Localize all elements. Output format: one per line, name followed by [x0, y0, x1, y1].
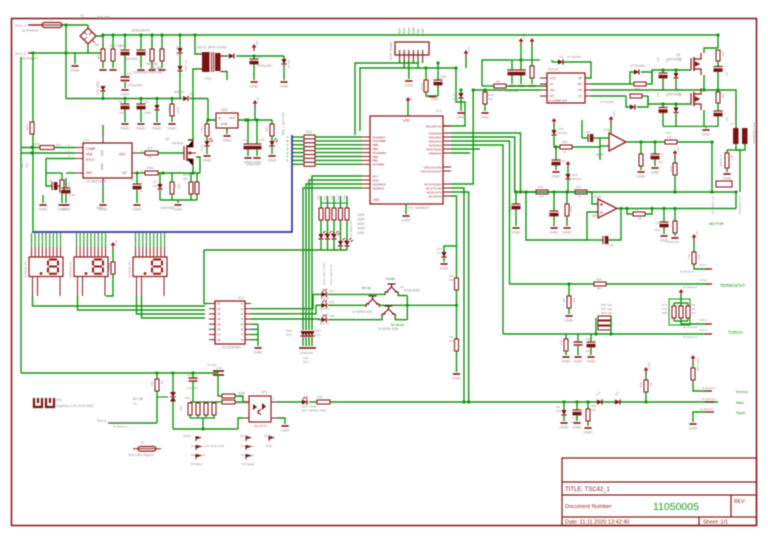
wire Q7 drain: [703, 88, 705, 90]
wire bridge to AC: [87, 44, 89, 53]
resistor 360R bank: [196, 403, 200, 415]
resistor R6: [60, 180, 64, 192]
wire SV1-3 drop: [32, 53, 34, 232]
capacitor C29: [552, 160, 561, 165]
svg-text:COMP: COMP: [86, 147, 96, 151]
wire to IC5 input: [208, 99, 216, 121]
wire: [277, 401, 302, 403]
capacitor C6: [137, 104, 146, 109]
wire siyah gnd: [693, 412, 705, 422]
inductor L2: [733, 128, 739, 144]
wire drain: [188, 139, 193, 141]
diode D17: [303, 331, 308, 336]
wire: [456, 351, 458, 372]
svg-text:47ER: 47ER: [146, 166, 154, 170]
svg-text:BAS32: BAS32: [174, 90, 185, 94]
svg-text:SV3-1: SV3-1: [699, 263, 708, 267]
svg-text:O8: O8: [217, 338, 221, 342]
resistor R50: [560, 145, 572, 149]
wire: [309, 401, 317, 403]
svg-text:S3 BOW-4050: S3 BOW-4050: [378, 327, 399, 331]
wire mode in: [328, 293, 385, 294]
svg-text:R55: R55: [317, 395, 323, 399]
wire R15 to IC2: [315, 163, 362, 165]
pin stub IC4 in2: [209, 308, 215, 310]
ground: [121, 90, 130, 97]
junction j9: [716, 33, 719, 36]
wire: [673, 318, 675, 321]
svg-text:4k7: 4k7: [562, 298, 566, 303]
wire R15 to IC2: [315, 159, 362, 161]
ground: [58, 205, 67, 212]
svg-text:R27: R27: [730, 155, 734, 161]
wire: [482, 60, 509, 86]
LED LED2: [269, 138, 278, 146]
ground: [702, 130, 711, 137]
transistor Q7 IRF540: [691, 88, 701, 110]
flag net marker: [246, 436, 252, 441]
svg-text:R35: R35: [669, 166, 673, 172]
wire: [674, 175, 676, 192]
wire digit1 common: [33, 296, 206, 306]
wire: [65, 193, 67, 203]
wire bootstrap: [564, 62, 592, 78]
svg-text:C36: C36: [608, 243, 614, 247]
svg-text:D26: D26: [329, 300, 335, 304]
svg-text:GND: GND: [457, 115, 466, 120]
svg-text:C30: C30: [585, 337, 591, 341]
svg-text:GND: GND: [689, 426, 698, 431]
svg-text:5mm LED Y DSL: 5mm LED Y DSL: [322, 262, 326, 285]
svg-text:C7: C7: [257, 56, 261, 60]
svg-text:R55 10k: R55 10k: [601, 311, 613, 315]
wire: [552, 61, 558, 63]
svg-text:BAS32: BAS32: [558, 131, 568, 135]
wire: [320, 220, 322, 234]
svg-text:O7: O7: [217, 333, 221, 337]
svg-text:O6: O6: [217, 328, 221, 332]
wire IC1 vcc up: [102, 125, 104, 136]
svg-text:22n/400: 22n/400: [126, 57, 138, 61]
optocoupler OP2 MOC3021: [249, 396, 271, 422]
wire IC6A out: [617, 208, 736, 210]
wire: [443, 258, 445, 262]
svg-text:R59: R59: [639, 382, 643, 388]
wire led feed: [327, 196, 329, 208]
svg-text:BZX-C2: BZX-C2: [320, 321, 330, 325]
wire: [663, 209, 665, 223]
svg-text:10k: 10k: [591, 408, 596, 412]
svg-text:GND: GND: [174, 207, 183, 212]
resistor R49: [483, 92, 487, 104]
wire HO: [591, 83, 630, 85]
svg-text:R62: R62: [150, 381, 154, 387]
capacitor C36: [603, 236, 608, 244]
pin SV3-3 siyah: [705, 411, 714, 413]
connector ICSP header SV2: [395, 42, 429, 55]
junction: [64, 23, 67, 26]
resistor R59: [644, 380, 648, 392]
LED LED1: [204, 138, 213, 146]
svg-text:IC1: IC1: [84, 138, 89, 142]
wire: [161, 61, 163, 68]
ground: [153, 124, 162, 131]
svg-text:dPCO_BPM 4/100u: dPCO_BPM 4/100u: [197, 46, 227, 50]
svg-text:GND: GND: [402, 218, 411, 223]
svg-text:GNDGNDGNDGND: GNDGNDGNDGND: [133, 71, 163, 75]
wire IC8A out: [626, 141, 665, 143]
capacitor C16: [550, 211, 559, 216]
svg-text:TORCH: TORCH: [728, 330, 743, 335]
wire SD_ line: [473, 89, 540, 91]
wire: [567, 168, 569, 174]
supply +5V arrow deko: [111, 242, 116, 249]
svg-text:R21: R21: [265, 127, 269, 133]
ground: [404, 81, 413, 88]
supply arrow D15: [552, 118, 557, 125]
wire: [662, 113, 664, 127]
svg-text:GND: GND: [562, 359, 571, 364]
wire: [674, 233, 676, 236]
wire: [641, 72, 652, 84]
pin stub IC4 in4: [209, 318, 215, 320]
wire digit drive: [306, 184, 362, 330]
wire: [161, 35, 163, 49]
capacitor C25: [434, 80, 443, 85]
wire: [654, 142, 656, 154]
svg-text:GND: GND: [121, 92, 130, 97]
wire low rail: [663, 125, 718, 127]
pin stub SV1-3: [28, 52, 33, 54]
svg-text:GND: GND: [560, 425, 569, 430]
flag net marker: [246, 445, 252, 450]
wire phase to L2: [700, 90, 736, 128]
wire: [553, 125, 555, 130]
wire vdd: [407, 104, 409, 116]
wire: [693, 241, 695, 252]
7-segment display LED3: [133, 257, 167, 277]
ground: [528, 85, 535, 87]
junction: [123, 97, 126, 100]
wire button common: [406, 296, 408, 320]
svg-text:C23: C23: [721, 111, 725, 117]
microcontroller IC2 PIC16F883: [370, 116, 443, 204]
ground: [402, 216, 411, 223]
svg-text:10k: 10k: [637, 217, 642, 221]
bus stub G: [292, 159, 304, 161]
wire: [674, 302, 688, 304]
junction j1: [101, 33, 104, 36]
wire: [45, 159, 47, 167]
wire: [680, 296, 682, 303]
transistor Q6 IRF540: [691, 53, 701, 75]
svg-text:360R 2W: 360R 2W: [196, 416, 208, 420]
wire: [646, 83, 652, 85]
zener D3: [281, 59, 286, 64]
wire: [283, 65, 285, 80]
svg-text:C20: C20: [656, 57, 660, 62]
display pin top 6: [49, 233, 51, 247]
wire: [205, 402, 207, 403]
pin stub RC5: [362, 183, 370, 185]
svg-text:SV1: SV1: [303, 360, 309, 364]
pin stub RB6: [362, 140, 370, 142]
diode D14 BAS32: [597, 399, 602, 404]
svg-text:4p Molecon: 4p Molecon: [700, 407, 714, 411]
wire drain bus: [717, 35, 719, 48]
zener D21: [458, 93, 463, 98]
wire telup in: [328, 304, 366, 306]
svg-text:OUT: OUT: [119, 153, 126, 157]
wire fb r37: [627, 209, 633, 215]
svg-text:SV3-3: SV3-3: [699, 318, 708, 322]
svg-text:GND: GND: [100, 163, 104, 171]
wire teldown in: [328, 316, 382, 320]
7-segment display LED1: [29, 257, 63, 277]
svg-text:SV3-4: SV3-4: [699, 328, 708, 332]
wire to +5V: [254, 107, 256, 120]
display pin top 8: [160, 233, 162, 247]
svg-text:GND: GND: [573, 425, 582, 430]
display pin top 3: [83, 233, 85, 247]
transformer TR1: [199, 52, 225, 72]
svg-text:D28: D28: [329, 314, 335, 318]
svg-text:100n: 100n: [69, 193, 76, 197]
wire: [645, 209, 652, 215]
svg-text:VFB: VFB: [86, 153, 92, 157]
pin stubs IC1: [75, 136, 140, 185]
svg-text:6p Molecon: 6p Molecon: [22, 29, 39, 33]
wire: [563, 402, 565, 410]
capacitor C21: [660, 222, 669, 227]
svg-text:SV1: SV1: [556, 409, 562, 413]
wire: [253, 64, 255, 80]
bus stub F: [292, 156, 304, 158]
svg-text:R58: R58: [596, 278, 602, 282]
display pin top 9: [60, 233, 62, 247]
display pin bottom: [37, 277, 39, 297]
svg-text:GND: GND: [431, 97, 439, 101]
resistor R4: [145, 151, 158, 155]
svg-text:4n7: 4n7: [571, 420, 576, 424]
wire: [576, 402, 578, 410]
left rail wire: [20, 57, 22, 373]
svg-text:SV1-6: SV1-6: [97, 419, 107, 423]
wire: [456, 290, 458, 305]
display pin top 9: [105, 233, 107, 247]
svg-text:R13: R13: [200, 127, 204, 133]
wire: [61, 173, 63, 180]
ground: [723, 174, 732, 181]
wire torch sense: [451, 145, 503, 334]
svg-text:OP2: OP2: [261, 391, 268, 395]
svg-text:TITLE: TSC42_1: TITLE: TSC42_1: [565, 487, 611, 493]
resistor R15 element 3: [304, 143, 315, 147]
wire cs: [140, 172, 145, 174]
resistor R14b: [494, 84, 506, 88]
display pin top 7: [156, 233, 158, 247]
svg-text:GND: GND: [71, 68, 80, 73]
wire key row: [451, 196, 457, 246]
capacitor C28b 4n7: [659, 108, 668, 113]
svg-text:HO: HO: [578, 82, 583, 86]
wire: [197, 402, 199, 403]
svg-text:100n: 100n: [585, 349, 592, 353]
pin stubs IR2104: [540, 78, 591, 96]
wire: [46, 172, 62, 174]
wire to snubber rail: [179, 72, 181, 99]
wire: [677, 141, 712, 143]
svg-text:GND: GND: [552, 174, 561, 179]
wire: [630, 83, 634, 85]
svg-text:GND: GND: [481, 115, 490, 120]
supply +5V arrow: [464, 50, 469, 57]
fuse F2: [138, 447, 156, 452]
svg-text:STA 160U: STA 160U: [96, 80, 100, 95]
wire D17 branch: [444, 246, 457, 252]
svg-text:Tra Kapag: Tra Kapag: [241, 462, 254, 466]
wire L2 join: [736, 144, 745, 150]
svg-text:mclr: mclr: [421, 28, 425, 34]
resistor R11: [30, 122, 34, 134]
ground: [574, 357, 583, 364]
zener D8 SV1: [561, 410, 566, 415]
bus stub E: [292, 152, 304, 154]
resistor R13: [205, 124, 209, 136]
svg-text:IC4: IC4: [238, 296, 243, 300]
wire +5 to rail: [465, 57, 467, 68]
wire: [662, 78, 664, 89]
wire: [717, 90, 719, 92]
resistor R48: [150, 49, 154, 61]
wire: [520, 75, 522, 84]
wire main low-voltage line: [331, 401, 718, 403]
svg-text:330R: 330R: [357, 222, 365, 226]
display pin bottom: [32, 277, 34, 297]
svg-text:STTA108U: STTA108U: [630, 64, 646, 68]
resistor R23 22E: [716, 50, 720, 61]
resistor R58: [594, 282, 606, 286]
svg-text:330R: 330R: [357, 213, 365, 217]
display pin bottom: [136, 277, 138, 297]
pin stub IC4 out1: [245, 303, 251, 305]
pin stub IC4 out4: [245, 318, 251, 320]
svg-text:1k6: 1k6: [25, 163, 29, 168]
display pin bottom: [59, 277, 61, 297]
bus stub B: [292, 140, 304, 142]
resistor R28: [530, 66, 534, 78]
capacitor C23: [714, 111, 723, 116]
wire: [609, 208, 621, 240]
junction j2: [111, 33, 114, 36]
resistor R27 shunt: [725, 153, 729, 168]
wire: [484, 90, 486, 92]
LED 5mm: [318, 231, 327, 239]
resistor R14 DEKO: [111, 262, 115, 274]
svg-text:GND: GND: [133, 207, 142, 212]
svg-text:R47: R47: [572, 298, 576, 304]
wire digit drive: [309, 180, 362, 330]
svg-text:5V0: 5V0: [398, 28, 402, 34]
svg-text:TR1: TR1: [204, 76, 212, 81]
wire: [515, 209, 517, 226]
wire: [484, 104, 486, 111]
wire: [253, 56, 255, 59]
wire: [171, 116, 173, 122]
svg-text:C8: C8: [118, 100, 122, 104]
pin stub RB2: [362, 156, 370, 158]
wire: [124, 35, 126, 49]
svg-text:C1: C1: [131, 178, 135, 182]
svg-text:D3 9V: D3 9V: [287, 60, 291, 68]
wire led rail top: [321, 202, 347, 204]
wire digit2 common: [78, 296, 206, 310]
wire: [159, 190, 161, 200]
svg-text:GND: GND: [587, 359, 596, 364]
wire: [172, 402, 174, 430]
svg-text:R4: R4: [148, 155, 152, 159]
svg-text:O4: O4: [217, 317, 221, 321]
pin stub RB7: [362, 136, 370, 138]
svg-text:100n: 100n: [654, 228, 661, 232]
wire: [531, 60, 533, 66]
display pin top 2: [138, 233, 140, 247]
resistor 360R bank: [212, 403, 216, 415]
wire gate: [157, 396, 168, 398]
pin SV3-4: [705, 333, 712, 335]
wire: [680, 318, 682, 321]
svg-text:C18: C18: [506, 68, 510, 74]
junction: [64, 51, 67, 54]
wire 15V rail: [509, 59, 540, 61]
ground: [660, 236, 669, 243]
wire: [693, 380, 705, 391]
resistor R15 element 8: [304, 162, 315, 166]
display pin top 8: [56, 233, 58, 247]
svg-text:PGD: PGD: [407, 27, 411, 34]
wire: [151, 35, 153, 49]
svg-text:P!C 16F882/3: P!C 16F882/3: [408, 206, 429, 210]
svg-text:GND: GND: [565, 318, 574, 323]
svg-text:GNDGND: GNDGND: [666, 240, 680, 244]
wire VS phase: [591, 89, 700, 91]
svg-text:SDW5: SDW5: [240, 434, 249, 438]
svg-text:KBU8G: KBU8G: [97, 15, 111, 20]
svg-text:R31: R31: [576, 185, 582, 189]
diode D18 STTA: [630, 104, 635, 109]
svg-text:C22: C22: [721, 66, 725, 72]
wire: [308, 337, 310, 346]
svg-text:C9: C9: [120, 44, 124, 48]
wire: [456, 246, 458, 278]
wire: [208, 119, 216, 121]
resistor R32: [332, 208, 336, 220]
wire: [581, 120, 583, 138]
wire digit drive: [312, 176, 362, 330]
wire: [197, 415, 199, 418]
svg-text:C26: C26: [509, 206, 513, 212]
wire: [640, 142, 642, 154]
wire teldown out: [395, 316, 407, 320]
svg-text:R38: R38: [449, 278, 455, 282]
wire: [572, 138, 600, 147]
bus segment display: [32, 135, 292, 232]
wire: [302, 337, 304, 346]
wire telup out: [379, 304, 456, 306]
svg-text:PGC: PGC: [402, 27, 406, 34]
resistor R16: [634, 82, 646, 86]
capacitor C26: [512, 204, 521, 209]
